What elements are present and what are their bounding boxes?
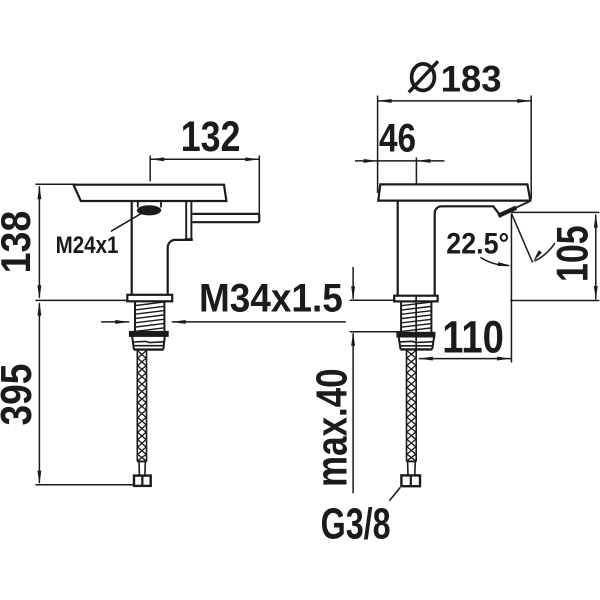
svg-text:46: 46 — [379, 117, 416, 161]
svg-text:138: 138 — [0, 211, 39, 274]
svg-text:395: 395 — [0, 364, 41, 426]
svg-text:22.5°: 22.5° — [446, 227, 509, 260]
svg-text:M34x1.5: M34x1.5 — [199, 277, 343, 321]
svg-text:max.40: max.40 — [308, 368, 357, 487]
svg-text:110: 110 — [442, 312, 504, 363]
svg-text:M24x1: M24x1 — [56, 232, 119, 259]
svg-text:183: 183 — [441, 58, 502, 99]
svg-text:132: 132 — [181, 113, 241, 160]
svg-text:G3/8: G3/8 — [321, 499, 391, 548]
svg-text:105: 105 — [546, 225, 597, 282]
